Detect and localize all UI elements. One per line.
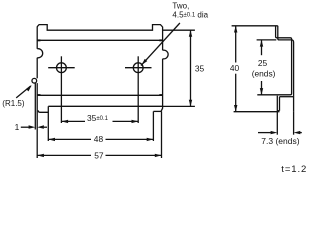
hole right bbox=[133, 63, 143, 73]
dim 57 line left bbox=[37, 154, 91, 156]
dim 7.3 right extension bbox=[293, 112, 295, 135]
svg-text:40: 40 bbox=[230, 63, 240, 73]
dim 35 top arrow bbox=[189, 30, 192, 37]
bracket front view: top outline with end tabs bbox=[37, 25, 162, 31]
leader line to right hole bbox=[141, 23, 180, 66]
bottom edge bbox=[48, 105, 162, 107]
right 57-dim extension bbox=[161, 111, 163, 158]
bottom fold line right stub bbox=[159, 94, 162, 96]
dim 7.3 left extension bbox=[276, 112, 278, 135]
svg-text:48: 48 bbox=[94, 134, 104, 144]
dim 40 bottom arrow bbox=[234, 105, 237, 112]
dim 7.3 line left bbox=[258, 132, 272, 134]
dim 57 left arrow bbox=[37, 154, 44, 157]
dim 7.3 right arrow bbox=[294, 131, 301, 134]
dim 35±0.1 left arrow bbox=[61, 120, 68, 123]
R1.5 corner tab bbox=[32, 78, 37, 83]
front view left edge lower bbox=[36, 58, 38, 79]
dim 1 left arrow bbox=[29, 125, 36, 128]
dim 25 line lower bbox=[261, 81, 263, 95]
dim 48 left arrow bbox=[48, 138, 55, 141]
dim 35 vertical right: top extension bbox=[163, 29, 195, 31]
dim 48 line right bbox=[106, 138, 154, 140]
top fold line right stub bbox=[159, 39, 162, 41]
hole left crosshair horizontal bbox=[48, 67, 74, 69]
dim 35 vertical line bbox=[190, 30, 192, 106]
side view top edge bbox=[232, 25, 278, 27]
dim 25 top extension bbox=[257, 39, 277, 41]
dim 1 line from label bbox=[21, 126, 29, 128]
side view lip inner edge bbox=[279, 97, 281, 111]
dim 40 top arrow bbox=[234, 26, 237, 33]
R1.5 leader arrowhead bbox=[26, 85, 32, 91]
dim 48 right arrow bbox=[147, 138, 154, 141]
top fold line left stub bbox=[37, 39, 40, 41]
R1.5 leader bbox=[16, 86, 31, 98]
bottom left step shelf bbox=[38, 110, 48, 112]
dim 35 bottom arrow bbox=[189, 100, 192, 107]
left main edge / 57-dim extension bbox=[36, 83, 38, 158]
left flange end edge / 1-dim extension bbox=[34, 83, 36, 129]
svg-text:35: 35 bbox=[195, 63, 205, 73]
svg-text:57: 57 bbox=[94, 150, 104, 160]
dim 25 top arrow bbox=[260, 40, 263, 47]
svg-text:25: 25 bbox=[258, 58, 268, 68]
right edge dimple bbox=[163, 50, 169, 59]
dim 1 right tail bbox=[44, 126, 47, 128]
right shelf vertical / 48-dim extension bbox=[152, 111, 154, 141]
left edge dimple bbox=[37, 49, 42, 58]
side view sheet outer contour bbox=[278, 26, 294, 112]
front view right edge upper bbox=[162, 27, 164, 51]
dim 1 right arrow bbox=[37, 125, 44, 128]
side view foot bottom edge + extension to 40 dim bbox=[234, 111, 278, 113]
left step vertical / 48-dim extension bbox=[47, 106, 49, 141]
svg-text:t=1.2: t=1.2 bbox=[281, 164, 307, 175]
front view right edge lower bbox=[161, 59, 163, 112]
dim 35±0.1 line left bbox=[61, 120, 85, 122]
svg-text:7.3 (ends): 7.3 (ends) bbox=[261, 136, 299, 146]
dim 57 right arrow bbox=[155, 154, 162, 157]
bottom fold line left stub bbox=[37, 94, 40, 96]
bottom fold line bbox=[37, 94, 162, 96]
hole right crosshair horizontal bbox=[125, 67, 152, 69]
svg-text:4.5±0.1 dia: 4.5±0.1 dia bbox=[172, 10, 208, 19]
dim 35±0.1 line right bbox=[113, 120, 139, 122]
hole left centerline vertical bbox=[60, 56, 62, 123]
dim 35 vertical right: bottom extension bbox=[163, 105, 195, 107]
hole right centerline vertical bbox=[137, 56, 139, 123]
dim 25 line upper bbox=[261, 40, 263, 55]
dim 35±0.1 right arrow bbox=[132, 120, 139, 123]
leader arrowhead bbox=[142, 59, 148, 65]
svg-text:(R1.5): (R1.5) bbox=[2, 99, 25, 108]
side view flange bottom surface bbox=[280, 96, 294, 98]
top fold line bbox=[37, 39, 162, 41]
svg-text:Two,: Two, bbox=[172, 2, 189, 11]
front view left edge upper bbox=[36, 27, 38, 49]
dim 7.3 left arrow bbox=[271, 131, 278, 134]
dim 40 line lower bbox=[235, 74, 237, 112]
side view lip outer edge bbox=[276, 96, 278, 112]
dim 25 bottom arrow bbox=[260, 88, 263, 95]
side view sheet inner contour bbox=[257, 26, 291, 95]
side view lip bottom outer bbox=[277, 111, 279, 113]
dim 48 line left bbox=[48, 138, 91, 140]
bottom right shelf bbox=[153, 110, 161, 112]
side view lip bottom bbox=[277, 110, 279, 112]
svg-text:(ends): (ends) bbox=[252, 69, 276, 79]
hole left bbox=[57, 63, 67, 73]
dim 40 line upper bbox=[235, 26, 237, 63]
dim 7.3 line right bbox=[299, 132, 301, 134]
dim 57 line right bbox=[106, 154, 162, 156]
svg-text:1: 1 bbox=[15, 122, 20, 132]
